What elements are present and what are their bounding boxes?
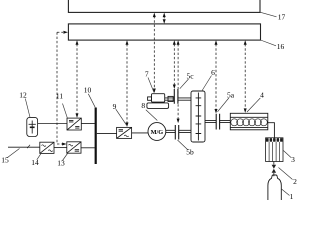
svg-text:14: 14: [31, 158, 39, 167]
svg-text:11: 11: [56, 92, 63, 101]
svg-text:6: 6: [211, 68, 215, 77]
svg-text:15: 15: [1, 156, 9, 165]
svg-text:M/G: M/G: [151, 129, 164, 136]
svg-text:8: 8: [141, 101, 145, 110]
svg-text:5c: 5c: [186, 72, 194, 81]
svg-text:7: 7: [145, 70, 149, 79]
svg-text:1: 1: [290, 192, 294, 200]
svg-text:5b: 5b: [186, 148, 194, 157]
svg-text:2: 2: [293, 177, 297, 186]
svg-text:10: 10: [84, 86, 92, 95]
svg-text:3: 3: [291, 155, 295, 164]
svg-text:9: 9: [113, 102, 117, 111]
svg-text:4: 4: [260, 91, 264, 100]
svg-text:12: 12: [19, 91, 27, 100]
svg-text:13: 13: [57, 159, 65, 168]
svg-text:5a: 5a: [227, 91, 235, 100]
svg-text:17: 17: [278, 13, 286, 22]
svg-text:16: 16: [277, 42, 285, 51]
